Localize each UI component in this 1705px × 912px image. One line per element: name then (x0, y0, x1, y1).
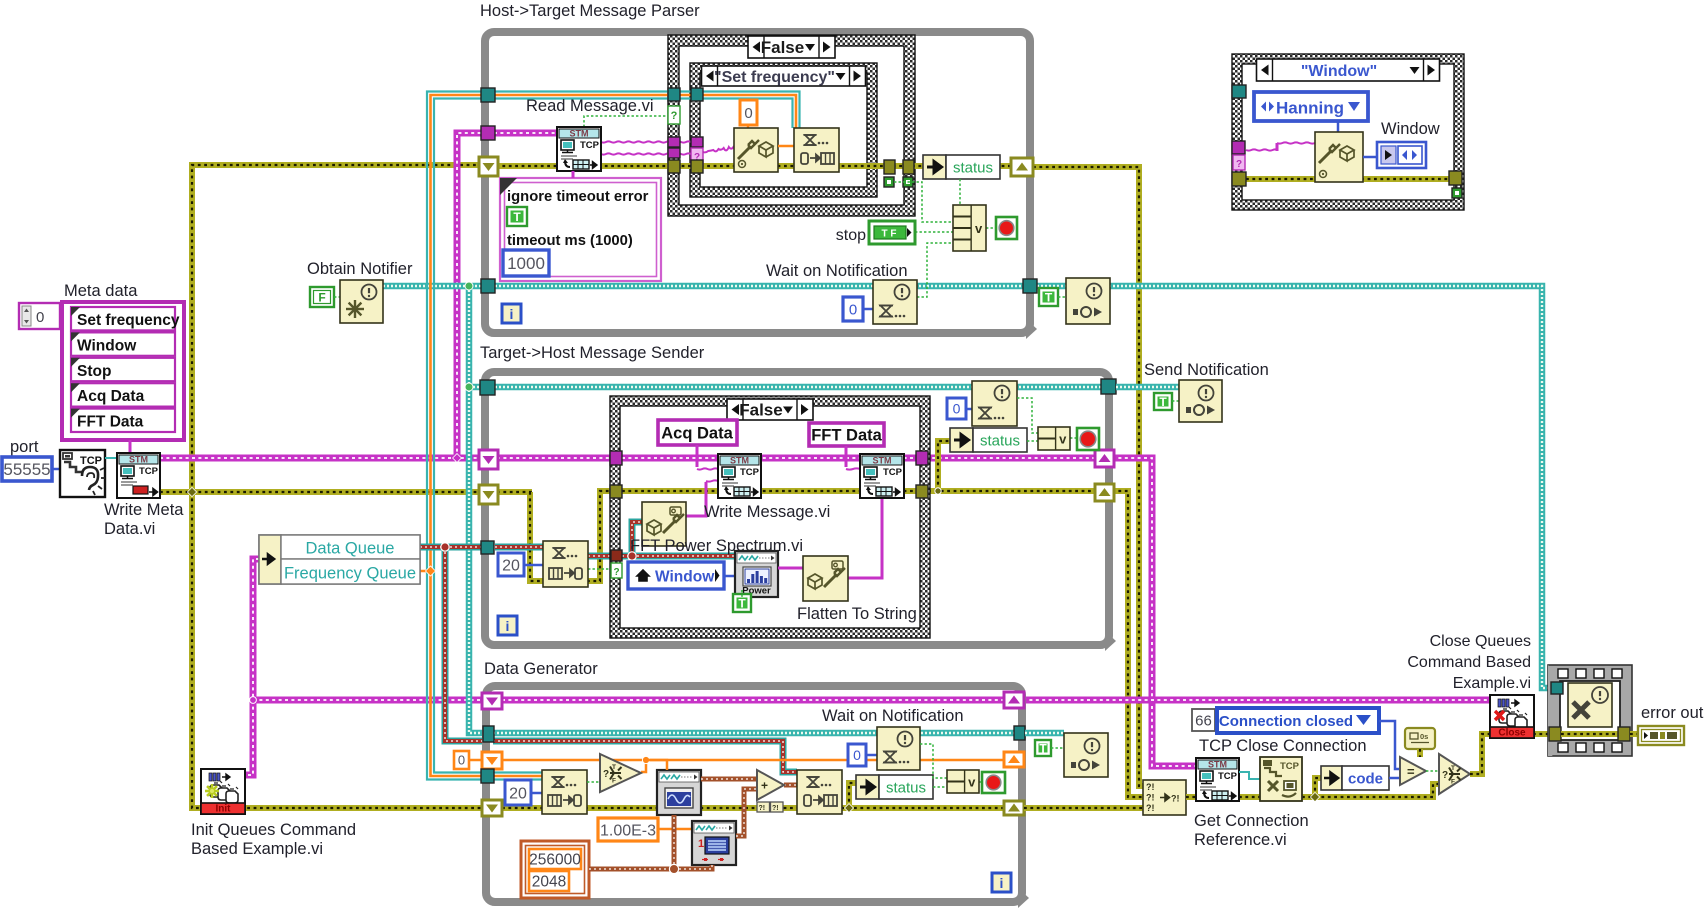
junction: notifier refnum branch (top) (465, 282, 473, 290)
svg-text:1000: 1000 (507, 254, 545, 273)
tunnel: meta-data into parser loop (481, 126, 495, 140)
svg-text:TCP: TCP (1280, 761, 1300, 772)
tunnel: boolean out outer case (903, 177, 913, 187)
vi icon: 2nd Write Message.vi (STM TCP) (860, 454, 904, 498)
tunnel: waveform into parser loop (481, 88, 495, 102)
svg-text:0: 0 (849, 301, 857, 318)
svg-text:Close Queues: Close Queues (1430, 633, 1531, 650)
junction: queue refnum branch in sender case (628, 552, 636, 560)
wire: booleans to OR (generator loop) (920, 744, 947, 778)
express vi icon: sine waveform generator (657, 770, 701, 815)
constant: T (cancel wait) (1035, 740, 1051, 756)
svg-text:TCP: TCP (139, 466, 159, 477)
svg-text:256000: 256000 (529, 852, 581, 869)
flat sequence structure (error handling) (1548, 665, 1632, 756)
vi icon: Obtain Notifier (340, 280, 383, 323)
vi icon: Read Message.vi (STM TCP) (557, 127, 601, 171)
constant: 1000 timeout (503, 250, 549, 276)
iteration terminal (parser loop) (502, 304, 521, 323)
vi icon: TCP listen (60, 450, 105, 497)
tunnel: waveform out of generator loop (481, 769, 494, 783)
tunnel: notifier into sequence (1551, 682, 1563, 694)
node: select (frequency update) (600, 754, 641, 792)
wire: queue refnum inside generator loop (493, 741, 797, 772)
svg-text:Example.vi: Example.vi (1453, 675, 1531, 692)
wire: data queue refnum from queue constant to loops (420, 544, 481, 551)
svg-text:TCP: TCP (80, 455, 102, 467)
svg-text:=: = (1407, 764, 1415, 779)
svg-text:T: T (1045, 291, 1053, 305)
express vi icon: FFT Power Spectrum (Power) (735, 551, 778, 597)
wire: error out of generator loop to merge errors (1024, 805, 1143, 811)
svg-text:STM: STM (873, 456, 892, 466)
tunnel: meta string on sender case (right) (916, 451, 928, 465)
tunnel: strings on inner case (691, 137, 703, 147)
svg-text:False: False (739, 401, 782, 420)
wire: notifier refnum inside parser loop (495, 283, 1023, 290)
svg-text:?!: ?! (1146, 803, 1155, 813)
svg-text:66: 66 (1195, 712, 1212, 729)
svg-text:T: T (612, 764, 616, 771)
icon: clear-errors dialog option (1405, 728, 1435, 749)
tunnel: boolean out inner case (884, 177, 894, 187)
svg-text:i: i (506, 618, 510, 634)
svg-text:T: T (738, 597, 746, 611)
wire: error cluster trunk from Write Meta Data.vi to loops (left rail) (160, 489, 481, 495)
svg-text:?: ? (1442, 770, 1448, 781)
wire: boolean dequeue to select (587, 781, 600, 783)
tunnel: error on inner case (right) (884, 160, 895, 174)
wire: message strings from Read Message.vi into case (601, 141, 691, 142)
svg-text:?!: ?! (772, 805, 779, 812)
vi icon: enqueue element (Set frequency case) (794, 128, 839, 172)
wire: error up to status (sender loop) (938, 441, 950, 491)
indicator: error out (1638, 726, 1684, 745)
indicator: status (parser loop) (923, 155, 946, 179)
svg-text:v: v (1059, 432, 1067, 447)
svg-text:status: status (886, 780, 926, 797)
constant: 1.00E-3 (dt) (598, 818, 658, 841)
svg-text:TCP: TCP (740, 467, 760, 478)
constant: 0 (initial frequency) (454, 751, 469, 769)
node: equals comparison (1400, 757, 1426, 785)
junction: queue-names wire branch (250, 697, 257, 704)
wire: waveform (teal/orange/teal) vertical rail between Data Generator and parser loop (427, 92, 481, 780)
wire: notifier to send notification (1116, 384, 1179, 391)
wire: queue names string-array from constant to Init Queues and Data Generator (245, 559, 259, 775)
svg-text:Meta data: Meta data (64, 282, 138, 300)
svg-text:Send Notification: Send Notification (1144, 361, 1269, 379)
vi icon: Write Message.vi (STM TCP) (718, 454, 761, 498)
svg-text:Write Message.vi: Write Message.vi (704, 503, 830, 521)
junction: cluster wire branch (669, 864, 678, 873)
svg-text:Window: Window (77, 337, 137, 354)
svg-text:Flatten To String: Flatten To String (797, 605, 917, 623)
svg-text:Host->Target Message Parser: Host->Target Message Parser (480, 2, 700, 20)
control: stop button terminal (generator loop) (982, 772, 1005, 793)
array element: Acq Data (71, 383, 175, 406)
control: stop button terminal (parser loop) (996, 217, 1017, 239)
shift register: error (left, parser loop) (479, 157, 498, 176)
svg-text:Wait on Notification: Wait on Notification (822, 707, 964, 725)
wire: waveform inside parser loop to enqueue (494, 92, 800, 129)
svg-text:Write Meta: Write Meta (104, 501, 184, 519)
constant: 66 (error code) (1192, 709, 1215, 731)
svg-text:status: status (980, 433, 1020, 450)
wire: Acq Data name into Write Message.vi (696, 445, 699, 467)
svg-text:stop: stop (836, 227, 866, 244)
svg-text:T F: T F (882, 229, 897, 240)
svg-text:TCP: TCP (580, 140, 600, 151)
vi icon: unflatten from string (Set frequency case) (734, 128, 778, 172)
case selector: "Window" (1257, 59, 1440, 81)
svg-text:?!: ?! (759, 805, 766, 812)
svg-text:FFT Data: FFT Data (811, 427, 882, 445)
wire: waveform from sine gen to + (701, 777, 757, 782)
tunnel: boolean out (window case) (1452, 188, 1462, 198)
node: add (+) (757, 770, 784, 800)
case structure: inner Set frequency case (690, 63, 877, 197)
shift register: queue names (right, generator) (1004, 692, 1024, 708)
svg-text:code: code (1348, 771, 1383, 788)
svg-text:Acq Data: Acq Data (77, 388, 145, 405)
wire: timed-out boolean to case tunnel (588, 568, 611, 570)
tunnel: strings on outer case (668, 137, 680, 147)
tunnel: error (window case left) (1232, 172, 1246, 186)
wire: error inside window case (1246, 176, 1450, 182)
constant: 0 (orange, case input) (740, 100, 757, 125)
tunnel: string ? (window case) (1232, 141, 1245, 154)
shift register: error (right, generator) (1004, 801, 1024, 815)
vi icon: send/release notification (after parser loop) (1066, 278, 1110, 324)
tunnel: error on outer case (right) (903, 160, 914, 174)
svg-text:Command Based: Command Based (1407, 654, 1531, 671)
iteration terminal (sender loop) (498, 616, 517, 635)
vi icon: dequeue element (generator loop) (542, 770, 587, 814)
indicator: Window enum (1377, 142, 1426, 168)
indicator: status (sender loop) (950, 428, 973, 452)
wire: flattened FFT string to 2nd Write Message.vi (848, 499, 882, 578)
wire: TCP connection string from sender loop to Get Connection Reference (1112, 458, 1196, 766)
svg-text:+: + (761, 779, 768, 793)
wire: error inside sender case (622, 488, 916, 494)
tunnel: notifier out of generator loop (1014, 726, 1025, 740)
wire: window type to FFT power spectrum (724, 575, 735, 578)
tunnel: waveform on outer case (668, 88, 680, 101)
junction: queue refnum branch (441, 543, 449, 551)
wire: booleans to compound OR (parser loop) (894, 182, 953, 222)
wire: window ring to unflatten (1337, 121, 1340, 132)
wire: notifier refnum inside sender loop (495, 384, 1103, 391)
svg-text:0: 0 (853, 747, 861, 763)
case selector: "Set frequency" (702, 66, 866, 86)
constant: 20 (dequeue timeout, sender) (498, 553, 524, 576)
wire: booleans to OR (sender loop) (1017, 398, 1038, 433)
svg-text:Init Queues Command: Init Queues Command (191, 821, 356, 839)
wire: meta string through sender case (622, 455, 916, 462)
svg-text:"Window": "Window" (1301, 63, 1377, 80)
vi icon: flatten to string (acq data) (642, 502, 686, 546)
svg-text:T: T (1039, 742, 1047, 756)
svg-text:STM: STM (1208, 760, 1227, 770)
shift register: meta string (right, sender) (1095, 450, 1114, 467)
wire: boolean from Read Message.vi to case tunnel (584, 116, 668, 127)
vi icon: Wait on Notification (sender loop) (972, 381, 1017, 426)
tunnel: error (window case right) (1449, 171, 1462, 185)
iteration terminal (generator loop) (992, 873, 1011, 892)
wire: notifier out of generator to release (1025, 730, 1064, 737)
case selector: False (sender) (727, 399, 813, 420)
svg-text:ignore timeout error: ignore timeout error (507, 189, 649, 205)
tunnel: string ? on inner case (691, 148, 703, 164)
tunnel: notifier into generator loop (483, 726, 494, 742)
case selector: False (748, 36, 835, 58)
wire: string into window case (1246, 149, 1278, 150)
tunnel: notifier into sender loop (480, 380, 495, 395)
shift register: error (right, parser loop) (1011, 158, 1033, 176)
wire: notifier inside generator loop (493, 730, 1014, 737)
array element: Window (71, 332, 175, 355)
array constant: Meta data strings (62, 302, 184, 440)
svg-text:?: ? (613, 567, 619, 578)
wire: connection id to TCP close (1239, 772, 1260, 779)
svg-text:?: ? (671, 110, 678, 122)
shift register: frequency (left, generator) (482, 752, 502, 769)
wire: queue element out of dequeue (sender loop) (588, 553, 611, 560)
junction: notifier refnum branch (middle) (465, 383, 473, 391)
constant: 20 (dequeue timeout, generator) (505, 780, 531, 805)
svg-text:?: ? (1236, 159, 1242, 170)
svg-text:Frequency Queue: Frequency Queue (284, 565, 416, 583)
constant: 0 ms (wait, generator) (848, 744, 866, 766)
svg-text:"Set frequency": "Set frequency" (714, 69, 835, 86)
svg-text:Read Message.vi: Read Message.vi (526, 97, 653, 115)
svg-text:20: 20 (509, 785, 527, 802)
vi icon: dequeue element (sender loop) (543, 541, 588, 587)
wire: frequency inside generator loop (468, 759, 483, 762)
svg-text:Connection closed: Connection closed (1219, 713, 1353, 730)
svg-text:STM: STM (730, 456, 749, 466)
wire: error from sender loop down right rail to merge errors (1112, 491, 1143, 797)
wire: meta array to Write Meta Data.vi (129, 440, 132, 454)
wire: meta-data string into Read Message.vi (494, 130, 557, 137)
svg-text:0s: 0s (1420, 732, 1428, 741)
tunnel: string into window case (1232, 85, 1246, 98)
svg-text:0: 0 (36, 309, 44, 326)
wire: expected code to equals (1379, 721, 1400, 769)
wire: error inside sequence (1561, 731, 1619, 737)
wire: FFT Data name into 2nd Write Message.vi (845, 446, 848, 467)
svg-text:T: T (513, 210, 521, 224)
junction: error branch to unbundle (1310, 792, 1319, 801)
svg-text:Hanning: Hanning (1276, 99, 1344, 118)
constant: 55555 (port) (2, 457, 52, 481)
wire: orange value to enqueue (778, 145, 794, 148)
wire: simulate out to + (736, 789, 757, 836)
junction: frequency value joins waveform rail (420, 570, 429, 573)
vi icon: simple error handler (X!) (1568, 683, 1612, 727)
shift register: frequency (right, generator) (1004, 752, 1024, 767)
svg-text:20: 20 (502, 557, 520, 574)
svg-text:port: port (10, 438, 39, 456)
constant: T boolean under Power (733, 594, 751, 612)
wire: queue names inside generator loop (502, 697, 1006, 704)
wire: equality to select (1426, 770, 1439, 772)
vi icon: Init Queues Command Based Example.vi (201, 769, 245, 814)
wire: dt to simulate icon (658, 828, 692, 831)
svg-text:STM: STM (129, 455, 148, 465)
vi icon: unflatten from string (window case) (1315, 132, 1363, 182)
tunnel: notifier out of sender loop (1101, 379, 1116, 394)
tunnel: error out of sequence (1618, 727, 1630, 741)
vi icon: Wait on Notification (parser loop) (873, 280, 917, 324)
svg-text:TCP: TCP (1218, 771, 1238, 782)
while loop: Target->Host Message Sender (485, 372, 1109, 645)
node: compound OR (generator loop) (947, 770, 979, 793)
wire: sampling info cluster to generators (589, 865, 712, 869)
svg-text:Data Generator: Data Generator (484, 660, 598, 678)
svg-text:v: v (968, 775, 976, 790)
constant: T (send notification) (1154, 393, 1172, 410)
svg-text:i: i (510, 306, 514, 322)
vi icon: merge errors (1143, 780, 1186, 815)
wire: code to equals (1389, 777, 1400, 780)
vi icon: release notifier (after generator loop) (1064, 733, 1108, 777)
wire: merged error through STM close chain (1186, 794, 1196, 800)
shift register: error (left, generator) (482, 800, 502, 816)
wire: meta data string-array from Write Meta Data.vi to message loops (160, 455, 481, 462)
vi icon: Get Connection Reference.vi (STM) (1196, 758, 1239, 801)
while loop: Host->Target Message Parser (485, 32, 1030, 333)
svg-text:v: v (975, 221, 983, 236)
shift register: error (left, sender) (479, 485, 498, 504)
vi icon: enqueue element (generator loop) (797, 770, 842, 814)
svg-text:FFT Data: FFT Data (77, 414, 144, 431)
svg-text:Data Queue: Data Queue (306, 540, 395, 558)
wire: waveform into generator dequeue (493, 771, 542, 773)
wire: error inside parser loop (496, 163, 1013, 169)
control: stop (TF boolean) (869, 221, 915, 244)
tunnel: queue names into generator loop (482, 693, 502, 709)
cluster constant: 256000 / 2048 (521, 841, 589, 898)
wire: frequency to sine generator (646, 760, 667, 770)
tunnel: boolean ? on sender case (611, 563, 622, 578)
svg-text:F: F (612, 778, 616, 785)
svg-text:STM: STM (570, 129, 589, 139)
svg-text:Window: Window (1381, 120, 1440, 138)
svg-text:Obtain Notifier: Obtain Notifier (307, 260, 413, 278)
svg-text:1.00E-3: 1.00E-3 (600, 822, 656, 839)
node: unbundle error code (1321, 766, 1342, 790)
node: select (filter error 66) (1439, 754, 1470, 794)
svg-text:Based Example.vi: Based Example.vi (191, 840, 323, 858)
tunnel: meta string on sender case (left) (610, 451, 622, 465)
svg-text:status: status (953, 160, 993, 177)
svg-text:1: 1 (698, 838, 704, 850)
svg-text:0: 0 (953, 401, 961, 417)
svg-text:Close: Close (1498, 728, 1526, 739)
wire: queue refnum inside case to FFT chain (622, 553, 632, 560)
svg-text:Stop: Stop (77, 363, 111, 380)
svg-text:0: 0 (744, 105, 752, 122)
wire: notifier refnum from parser loop to flat sequence (right rail) (1037, 286, 1552, 688)
queue name constant: Data Queue / Frequency Queue (259, 535, 420, 584)
svg-text:?!: ?! (1146, 782, 1155, 792)
svg-text:0: 0 (458, 753, 465, 768)
vi icon: Wait on Notification (generator loop) (877, 727, 920, 770)
shift register: meta string (left, sender) (479, 450, 498, 469)
junction: meta-data wire branch (453, 454, 462, 463)
svg-text:Init: Init (216, 804, 232, 815)
wire: notifier refnum from Obtain Notifier down the left rail (383, 283, 481, 290)
tunnel: error on inner case (left) (691, 160, 703, 173)
svg-text:?: ? (603, 769, 609, 780)
svg-text:?!: ?! (1146, 793, 1155, 803)
svg-text:timeout ms (1000): timeout ms (1000) (507, 233, 633, 249)
svg-text:T: T (1159, 395, 1167, 409)
constant: 0 ms (wait, sender loop) (947, 398, 966, 419)
svg-text:error out: error out (1641, 704, 1704, 722)
case structure: Window (documentation frame) (1232, 54, 1464, 210)
case structure: outer False case (parser) (668, 35, 915, 216)
tunnel: notifier refnum into parser loop (481, 279, 495, 293)
svg-text:T: T (1451, 765, 1455, 772)
shift register: error (right, sender) (1095, 484, 1114, 501)
svg-text:Target->Host Message Sender: Target->Host Message Sender (480, 344, 705, 362)
tunnel: boolean ? on outer case (668, 106, 680, 124)
constant: T (release notifier) (1039, 288, 1058, 306)
tunnel: error into sequence (1549, 727, 1561, 741)
case structure: False case (sender) (610, 396, 930, 638)
svg-text:Data.vi: Data.vi (104, 520, 155, 538)
wire: error to error out indicator (1630, 731, 1638, 737)
wire: select output joins frequency wire (641, 760, 646, 772)
wire: meta string inside sender loop (497, 455, 1097, 462)
wire: error from parser loop down right rail to merge errors (1033, 167, 1143, 786)
constant: 0 ms (wait, parser loop) (843, 297, 863, 321)
vi icon: Send Notification (1179, 380, 1222, 422)
enum constant: Connection closed (1217, 708, 1379, 733)
while loop: Data Generator (486, 686, 1022, 902)
tunnel: error on sender case (left) (610, 485, 622, 498)
array element: Set frequency (71, 307, 175, 330)
constant: T boolean (ignore timeout error) (507, 207, 527, 226)
svg-text:Get Connection: Get Connection (1194, 812, 1309, 830)
svg-text:TCP Close Connection: TCP Close Connection (1199, 737, 1367, 755)
wire: queue names from Data Generator loop to Close Queues VI (1023, 697, 1490, 704)
array element: Stop (71, 358, 175, 381)
array element: FFT Data (71, 409, 175, 432)
array index box (meta data) (19, 303, 60, 329)
wire: selected error to Close Queues VI (1470, 734, 1490, 774)
tunnel: queue refnum into sender loop (481, 541, 494, 554)
vi icon: Flatten To String (803, 556, 848, 601)
constant: FFT Data (message name) (809, 423, 884, 446)
svg-text:Acq Data: Acq Data (661, 425, 733, 443)
tunnel: error on outer case (left) (668, 160, 680, 173)
ring constant: Hanning (1254, 92, 1368, 121)
node: compound OR (sender loop) (1038, 427, 1070, 450)
svg-text:Set frequency: Set frequency (77, 312, 180, 329)
svg-text:F: F (318, 291, 325, 305)
wire: power spectrum to Flatten To String (778, 567, 803, 570)
junction: error branch to status (generator) (845, 804, 854, 813)
wire: + output to enqueue (784, 783, 797, 788)
constant: F boolean (obtain notifier) (310, 287, 334, 307)
vi icon: Close Queues Command Based Example.vi (1490, 695, 1534, 738)
indicator: status (generator loop) (856, 775, 879, 799)
svg-text:55555: 55555 (3, 460, 50, 479)
